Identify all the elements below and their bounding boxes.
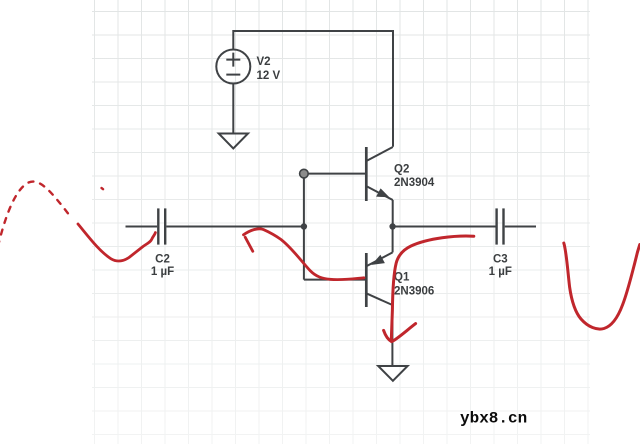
svg-text:2N3904: 2N3904 <box>394 177 435 189</box>
annotation: red solid input trough (left) <box>78 224 155 261</box>
svg-text:Q1: Q1 <box>394 271 410 283</box>
svg-text:C2: C2 <box>155 254 170 266</box>
ground (below V2) <box>219 134 248 149</box>
node: emitter output junction <box>389 223 395 229</box>
wire: C2 to base bus junction <box>166 226 302 228</box>
wire: base bus vertical <box>303 178 305 280</box>
annotation: red stray dot (left) <box>102 188 104 189</box>
svg-text:1 µF: 1 µF <box>489 266 512 278</box>
svg-text:12 V: 12 V <box>257 70 281 82</box>
wire: output lead right of C3 <box>505 226 536 228</box>
node: C2 / base bus junction <box>301 223 307 229</box>
svg-text:Q2: Q2 <box>394 163 409 175</box>
wire: V2 negative terminal to ground <box>232 84 234 134</box>
capacitor C2 <box>158 208 165 244</box>
wire: input lead left of C2 <box>126 226 158 228</box>
annotation: red stroke from output curving down Q1 collector <box>391 236 474 340</box>
wire: output junction to C3 <box>394 226 496 228</box>
annotation: red arrowhead barb <box>245 237 253 251</box>
annotation: red dashed input sine half-cycle (left) <box>0 182 70 246</box>
wire: Q1 base from bus <box>304 279 366 281</box>
svg-text:1 µF: 1 µF <box>151 266 174 278</box>
svg-text:2N3906: 2N3906 <box>394 285 434 297</box>
wire: V2 positive terminal to Q2 collector top rail <box>233 31 393 147</box>
annotation: red check/arrowhead at bottom <box>384 324 416 342</box>
transistor Q1 (PNP) <box>366 252 392 307</box>
transistor Q2 (NPN) <box>366 147 393 201</box>
svg-text:V2: V2 <box>257 56 271 68</box>
annotation: red arrow stroke to Q1 base <box>244 229 365 280</box>
svg-text:C3: C3 <box>493 254 508 266</box>
node: Q2/Q1 base bus terminal (gray dot) <box>300 169 309 178</box>
capacitor C3 <box>497 208 504 244</box>
ground (below Q1) <box>378 366 407 381</box>
voltage source V2 <box>216 50 250 84</box>
svg-text:ybx8.cn: ybx8.cn <box>460 410 527 428</box>
annotation: red output trough (right) <box>564 243 640 329</box>
wire: output junction down to Q1 emitter <box>392 227 394 253</box>
wire: Q1 collector to ground <box>391 305 393 366</box>
wire: Q2 emitter to output junction <box>392 200 394 227</box>
wire: Q2 base from node <box>308 173 367 175</box>
